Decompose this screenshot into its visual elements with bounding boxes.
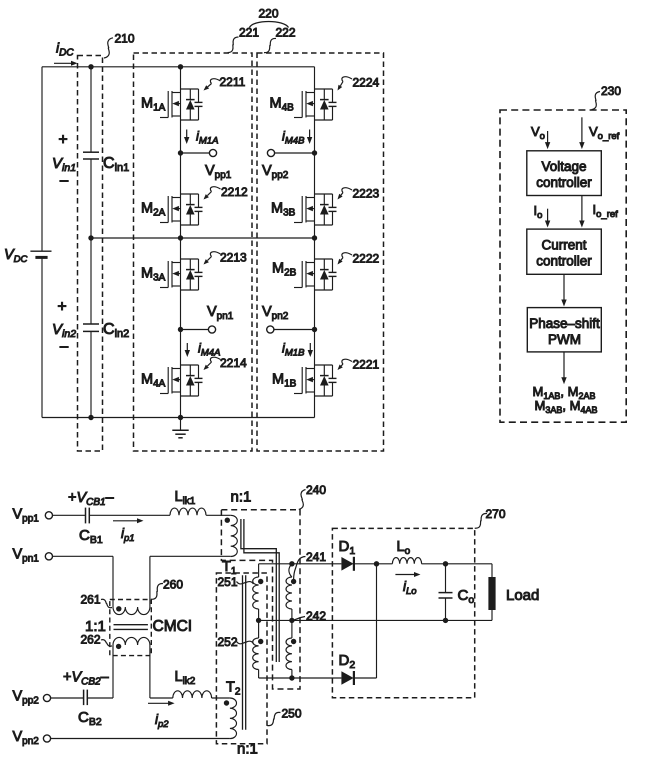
svg-text:1:1: 1:1 <box>85 618 106 635</box>
svg-text:Co: Co <box>458 587 475 606</box>
svg-text:Vpp1: Vpp1 <box>205 163 232 181</box>
svg-text:M1B: M1B <box>272 372 297 390</box>
svg-text:2213: 2213 <box>220 251 247 265</box>
svg-text:Vpp2: Vpp2 <box>13 689 40 707</box>
svg-text:Io: Io <box>534 203 543 221</box>
svg-text:Io_ref: Io_ref <box>593 202 619 220</box>
svg-text:2224: 2224 <box>353 76 380 90</box>
svg-text:242: 242 <box>306 609 326 623</box>
svg-text:M1A: M1A <box>141 96 166 114</box>
svg-text:iM1B: iM1B <box>282 341 305 359</box>
svg-text:–: – <box>60 338 69 355</box>
svg-text:CB1: CB1 <box>79 527 103 546</box>
svg-text:Current: Current <box>541 238 586 253</box>
svg-text:2212: 2212 <box>221 185 248 199</box>
svg-text:261: 261 <box>81 593 101 607</box>
svg-text:+VCB1–: +VCB1– <box>68 490 115 508</box>
svg-text:ip2: ip2 <box>155 712 169 730</box>
svg-text:D2: D2 <box>339 652 356 671</box>
svg-text:2221: 2221 <box>353 358 380 372</box>
svg-text:Vpn2: Vpn2 <box>262 304 289 322</box>
svg-text:Vpp2: Vpp2 <box>262 163 289 181</box>
svg-text:250: 250 <box>282 707 302 721</box>
svg-text:M4A: M4A <box>141 372 166 390</box>
svg-text:T2: T2 <box>226 680 241 698</box>
svg-text:controller: controller <box>536 254 592 269</box>
svg-text:240: 240 <box>306 483 326 497</box>
svg-text:iM4A: iM4A <box>198 341 220 359</box>
svg-text:Vpp1: Vpp1 <box>13 507 40 525</box>
svg-text:+: + <box>58 132 67 149</box>
svg-text:2223: 2223 <box>353 187 380 201</box>
svg-text:+VCB2–: +VCB2– <box>63 670 110 688</box>
svg-text:Vpn1: Vpn1 <box>207 304 234 322</box>
svg-text:Lo: Lo <box>397 539 411 557</box>
svg-text:Vo: Vo <box>531 124 545 142</box>
svg-text:Llk2: Llk2 <box>175 669 196 687</box>
svg-text:M2B: M2B <box>272 261 297 279</box>
svg-text:iM4B: iM4B <box>282 129 305 147</box>
svg-text:ip1: ip1 <box>121 526 135 544</box>
svg-text:T1: T1 <box>222 559 237 577</box>
svg-text:222: 222 <box>276 26 296 40</box>
svg-text:251: 251 <box>218 575 238 589</box>
svg-text:CMCI: CMCI <box>153 618 193 635</box>
svg-text:+: + <box>57 299 66 316</box>
svg-text:Vo_ref: Vo_ref <box>589 124 620 142</box>
svg-text:n:1: n:1 <box>237 741 258 758</box>
svg-text:M3B: M3B <box>271 201 296 219</box>
svg-text:iDC: iDC <box>56 40 74 59</box>
svg-text:220: 220 <box>258 6 278 20</box>
svg-text:2214: 2214 <box>220 356 247 370</box>
svg-text:VDC: VDC <box>4 247 28 265</box>
svg-text:controller: controller <box>536 175 592 190</box>
svg-text:210: 210 <box>115 31 135 45</box>
svg-text:Vpn1: Vpn1 <box>13 547 40 565</box>
svg-text:Voltage: Voltage <box>541 159 586 174</box>
svg-text:n:1: n:1 <box>231 489 252 506</box>
svg-text:Vpn2: Vpn2 <box>13 729 40 747</box>
svg-text:260: 260 <box>163 577 183 591</box>
svg-text:Load: Load <box>506 587 539 604</box>
svg-text:2211: 2211 <box>220 75 246 89</box>
svg-text:241: 241 <box>306 550 326 564</box>
svg-text:252: 252 <box>218 635 238 649</box>
svg-text:Llk1: Llk1 <box>175 489 196 507</box>
svg-text:iLo: iLo <box>403 579 417 597</box>
svg-text:M3A: M3A <box>141 266 166 284</box>
svg-text:Cin1: Cin1 <box>103 155 129 174</box>
svg-text:Cin2: Cin2 <box>103 321 129 340</box>
svg-text:iM1A: iM1A <box>196 129 218 147</box>
svg-text:230: 230 <box>601 84 621 98</box>
svg-text:–: – <box>60 172 69 189</box>
svg-text:PWM: PWM <box>548 332 581 347</box>
svg-text:D1: D1 <box>339 538 356 557</box>
svg-text:Phase–shift: Phase–shift <box>529 316 600 331</box>
svg-text:2222: 2222 <box>353 252 380 266</box>
svg-text:CB2: CB2 <box>78 709 102 728</box>
svg-text:M2A: M2A <box>141 201 166 219</box>
svg-text:270: 270 <box>486 507 506 521</box>
svg-text:M4B: M4B <box>270 96 295 114</box>
svg-text:221: 221 <box>239 26 259 40</box>
